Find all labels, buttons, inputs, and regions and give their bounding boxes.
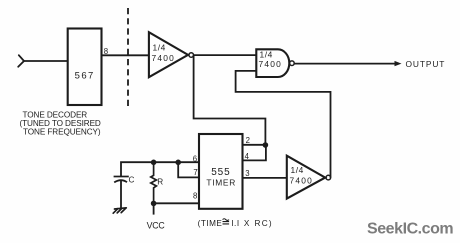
svg-text:VCC: VCC: [147, 220, 166, 230]
svg-text:8: 8: [193, 192, 197, 201]
svg-text:R: R: [157, 178, 163, 187]
pin 6 wire to capacitor top: [121, 162, 199, 176]
junction dot pins 2/4: [263, 142, 269, 148]
junction dot pin7/pin6 line: [175, 160, 181, 166]
ground symbol: [113, 208, 126, 213]
NAND U2 1/4 7400 body: [256, 49, 289, 77]
svg-text:7400: 7400: [259, 59, 282, 69]
svg-text:X: X: [244, 219, 250, 228]
IC 567 tone decoder box: [68, 29, 102, 106]
svg-text:7400: 7400: [152, 53, 175, 63]
junction dot R bottom / VCC: [151, 201, 157, 207]
capacitor C top plate: [114, 176, 129, 178]
pin 7 wire: [178, 162, 199, 177]
capacitor C bottom curved plate: [114, 180, 127, 182]
U3 output bubble: [326, 175, 331, 180]
svg-text:567: 567: [75, 71, 95, 82]
svg-text:7: 7: [193, 168, 197, 177]
junction dot R top: [151, 160, 157, 166]
pin 3 wire to U3 input: [243, 177, 288, 179]
dashed separator line: [127, 8, 129, 108]
svg-text:3: 3: [245, 169, 249, 178]
svg-text:2: 2: [246, 136, 250, 145]
wire U2 bottom input routing from U3 output: [236, 71, 331, 178]
wire U1 output to NAND U2 top input: [194, 54, 257, 56]
svg-text:1/4: 1/4: [291, 165, 304, 175]
svg-text:RC): RC): [255, 219, 273, 228]
svg-text:7400: 7400: [290, 176, 313, 186]
svg-text:TIMER: TIMER: [206, 177, 236, 187]
svg-text:TONE FREQUENCY): TONE FREQUENCY): [23, 127, 101, 136]
U1 output bubble: [189, 53, 194, 58]
label (TIME≅1.1 X RC): [198, 219, 273, 228]
svg-text:OUTPUT: OUTPUT: [406, 59, 446, 69]
svg-text:6: 6: [193, 154, 197, 163]
resistor R zigzag: [151, 162, 157, 203]
VCC stub wire: [153, 203, 155, 214]
svg-text:4: 4: [245, 152, 250, 161]
svg-text:1/4: 1/4: [153, 43, 166, 53]
wire capacitor to ground: [120, 181, 122, 208]
output arrowhead: [395, 61, 402, 66]
svg-text:I.I: I.I: [231, 219, 240, 228]
IC 555 timer box: [199, 134, 243, 209]
wire 567 pin8 to inverter U1: [102, 54, 149, 56]
input arrowhead: [18, 55, 24, 67]
svg-text:C: C: [129, 176, 135, 185]
inverter U1 1/4 7400 triangle: [149, 32, 188, 77]
pin 4 wire: [243, 145, 266, 160]
svg-text:SeekIC.com: SeekIC.com: [367, 221, 453, 238]
pin 8 wire: [154, 202, 199, 204]
pin 2 wire: [243, 144, 266, 146]
U2 output bubble: [290, 61, 295, 66]
svg-text:(TIME: (TIME: [198, 219, 223, 228]
inverter U3 1/4 7400 triangle: [287, 156, 325, 199]
wire branch U1 output down to 555 pins 2,4: [194, 55, 266, 145]
wire U2 output to OUTPUT: [294, 63, 399, 65]
wire input to 567: [24, 60, 68, 62]
svg-text:1/4: 1/4: [260, 50, 273, 60]
